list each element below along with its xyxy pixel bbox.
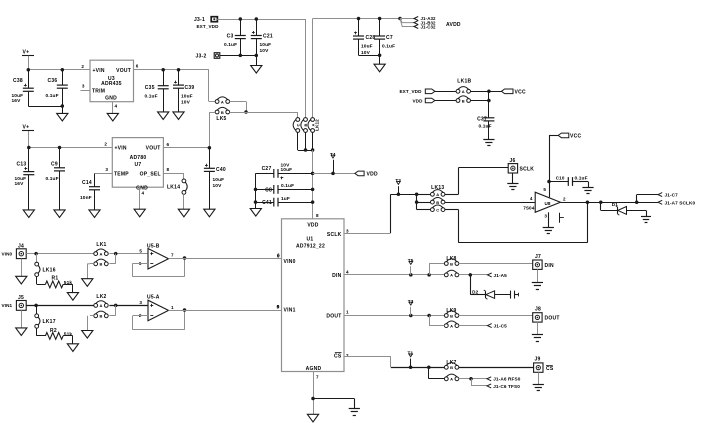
svg-text:C28: C28 [366, 35, 376, 41]
wire VDD row [313, 172, 355, 176]
U7 pin 4 GND wire [140, 187, 145, 209]
capacitor C3 0.1uF [224, 19, 246, 57]
svg-text:A: A [221, 99, 224, 104]
svg-text:0.1uF: 0.1uF [224, 42, 237, 48]
op-amp U3 ADR435 voltage reference body [90, 60, 134, 101]
svg-text:V+: V+ [23, 50, 30, 56]
wire to D1 [601, 202, 618, 210]
net tag VCC [501, 89, 526, 95]
ground below C36 [57, 113, 68, 121]
svg-text:LK5: LK5 [216, 116, 226, 122]
power terminal V+ (U3 supply) [22, 50, 34, 70]
diode D2 [472, 289, 494, 299]
svg-text:T4: T4 [330, 152, 336, 157]
svg-text:LK1B: LK1B [457, 79, 471, 85]
svg-text:VDD: VDD [413, 98, 424, 103]
wire LK5-A out [230, 102, 248, 114]
resistor R1 51k [45, 275, 72, 288]
inverter U8 7S04 [523, 192, 560, 212]
svg-text:VOUT: VOUT [116, 68, 131, 74]
svg-text:7: 7 [171, 253, 174, 258]
svg-text:8: 8 [167, 167, 170, 172]
svg-text:EXT_VDD: EXT_VDD [400, 89, 423, 94]
svg-text:6: 6 [167, 142, 170, 147]
wire LK1 to U5-B +input [109, 248, 148, 263]
wire U1 DIN row [344, 273, 445, 277]
svg-text:0.1uF: 0.1uF [575, 176, 588, 182]
capacitor C7 0.1uF [374, 19, 395, 65]
svg-text:U1: U1 [307, 237, 314, 243]
earth ground below J9 [533, 385, 544, 391]
svg-text:VDD: VDD [307, 222, 318, 228]
svg-text:J1-C5: J1-C5 [494, 324, 508, 329]
wire J4 to LK1-A [26, 252, 94, 256]
svg-text:D1: D1 [612, 202, 618, 207]
svg-text:3: 3 [82, 84, 85, 89]
net tag VDD source [413, 98, 457, 103]
U3 pin 4 GND wire [113, 102, 118, 114]
svg-text:EXT_VDD: EXT_VDD [197, 24, 220, 29]
connector J3-1 [194, 17, 217, 23]
link LK13 [431, 185, 445, 212]
earth ground below D1 [641, 217, 651, 223]
wire LK9-B to J8 [459, 315, 533, 317]
link LK9 [444, 308, 458, 328]
svg-text:TEMP: TEMP [114, 172, 129, 178]
svg-text:DIN: DIN [545, 263, 555, 269]
link LK16 [35, 254, 56, 277]
wire LK7-B to J9 [459, 367, 534, 369]
svg-text:10V: 10V [181, 99, 191, 105]
wire J5 to LK2-A [26, 304, 94, 308]
wire V+ to U3 +VIN, node [27, 64, 90, 72]
svg-text:J1-A7 SCLK0: J1-A7 SCLK0 [665, 200, 696, 205]
wire LK2-B to ground [88, 316, 94, 331]
svg-text:3: 3 [105, 167, 108, 172]
svg-text:VOUT: VOUT [146, 146, 161, 152]
svg-text:C41: C41 [262, 200, 272, 206]
connector J1-C7 [637, 193, 679, 203]
capacitor C36 0.1uF [46, 70, 68, 114]
svg-text:DIN: DIN [332, 273, 342, 279]
capacitor C10 0.1uF [549, 176, 589, 188]
wire U3 VOUT net [134, 64, 209, 72]
svg-text:8: 8 [316, 213, 319, 218]
svg-text:AD7912_22: AD7912_22 [296, 243, 325, 249]
svg-text:5: 5 [139, 248, 142, 253]
capacitor C13 10uF 16V [15, 148, 35, 210]
wire U5-B output to U1 VIN0 [169, 252, 282, 258]
svg-text:VIN0: VIN0 [2, 251, 13, 256]
connector J1-C5 [459, 324, 507, 329]
ground below C39 [173, 112, 184, 120]
wire CS branch to LK7-A [429, 367, 445, 379]
ground below R1 [67, 293, 78, 301]
wire J9 to ground [537, 367, 539, 384]
svg-text:1: 1 [346, 309, 349, 314]
svg-text:U5-A: U5-A [147, 294, 160, 300]
connector J1-A6 RFS0 [459, 377, 521, 382]
svg-text:SCLK: SCLK [327, 232, 342, 238]
svg-text:AGND: AGND [306, 366, 322, 372]
ground below C37 [483, 140, 494, 146]
capacitor C39 10uF 10V [173, 70, 194, 112]
svg-text:LK17: LK17 [43, 319, 56, 325]
svg-text:J8: J8 [535, 307, 541, 313]
connector J1-C32 [400, 19, 436, 30]
resistor R2 51k [45, 328, 72, 340]
power terminal V+ (U7 supply) [22, 125, 34, 148]
svg-text:C36: C36 [48, 78, 58, 84]
ground below J5 [16, 328, 27, 336]
U8 unused pin mark [559, 213, 564, 223]
wire U1 AGND down [311, 372, 315, 415]
connector J8 DOUT [533, 307, 560, 322]
svg-text:LK12: LK12 [315, 119, 320, 131]
wire C38 bottom to C36 bottom [28, 104, 64, 108]
svg-text:6: 6 [277, 252, 280, 257]
wire VCC to U8 pin 5 [543, 135, 550, 197]
op-amp U5-A [139, 294, 174, 320]
svg-text:10uF: 10uF [281, 167, 293, 173]
wire U8 output SCLK0 [560, 196, 658, 204]
link LK17 [35, 305, 56, 328]
svg-text:J6: J6 [510, 158, 516, 164]
capacitor C21 10uF 10V [251, 19, 273, 66]
capacitor C41 1uF [256, 196, 313, 207]
link LK1B-A [456, 87, 470, 94]
wire U7 VOUT up to LK5-B [209, 112, 215, 148]
capacitor C28 10uF 10V [353, 19, 375, 57]
capacitor C27 10uF 10V [256, 163, 313, 180]
svg-text:VIN0: VIN0 [284, 259, 296, 265]
svg-text:16V: 16V [12, 98, 22, 104]
svg-text:GND: GND [105, 95, 117, 101]
connector J1-C6 TFS0 [471, 379, 520, 389]
svg-text:C14: C14 [82, 180, 92, 186]
svg-text:U8: U8 [544, 201, 550, 206]
wire U7 VOUT net [163, 142, 211, 149]
wire AGND to earth ground [313, 399, 355, 409]
wire U5-A output to U1 VIN1 [169, 304, 282, 310]
svg-text:AVDD: AVDD [446, 22, 461, 28]
svg-text:CS: CS [334, 353, 342, 359]
ground below C7 [374, 64, 385, 72]
connector J7 DIN [533, 254, 554, 269]
op-amp U1 AD7912_22 ADC body [282, 213, 345, 372]
wire VCC node down [488, 91, 490, 118]
svg-text:+VIN: +VIN [93, 68, 105, 74]
svg-text:2: 2 [563, 196, 566, 201]
svg-text:J9: J9 [535, 356, 541, 362]
svg-text:0.1uF: 0.1uF [145, 93, 158, 99]
svg-text:A: A [436, 192, 439, 197]
svg-text:10uF: 10uF [361, 44, 373, 50]
svg-text:51k: 51k [64, 331, 73, 337]
svg-text:0.1uF: 0.1uF [281, 183, 294, 189]
diode D1 [612, 202, 627, 215]
ground below cap bus [250, 209, 261, 217]
wire J8 to ground [537, 322, 539, 334]
svg-text:5: 5 [277, 304, 280, 309]
svg-text:5: 5 [543, 187, 546, 192]
svg-text:A: A [450, 377, 453, 382]
svg-text:A: A [450, 273, 453, 278]
earth ground below J8 [532, 335, 543, 342]
svg-text:3: 3 [139, 300, 142, 305]
ground below C13 [23, 210, 34, 218]
wire U3 VOUT down to LK5-A [209, 70, 216, 102]
svg-text:C10: C10 [556, 176, 565, 181]
wire J3-2 to C21 node [220, 55, 256, 57]
connector J5 VIN1 [2, 295, 27, 310]
connector J1-A7 SCLK0 [658, 200, 696, 205]
svg-text:3: 3 [346, 228, 349, 233]
wire LK14 to ground [183, 194, 185, 209]
svg-text:J1-C6 TFS0: J1-C6 TFS0 [493, 384, 520, 389]
svg-text:C: C [296, 123, 301, 126]
net label EXT_VDD (J3) [197, 24, 220, 29]
svg-text:DOUT: DOUT [326, 313, 341, 319]
capacitor C38 10uF 16V [12, 70, 34, 106]
svg-text:0.1uF: 0.1uF [479, 124, 492, 130]
svg-text:SCLK: SCLK [520, 166, 535, 172]
svg-text:10uF: 10uF [181, 93, 193, 99]
svg-text:CS: CS [546, 366, 554, 372]
net tag EXT_VDD [400, 89, 457, 94]
ground below J4 [16, 276, 27, 284]
U3 pin 3 TRIM stub [81, 84, 91, 91]
svg-text:AD780: AD780 [130, 155, 147, 161]
svg-text:J1-C32: J1-C32 [421, 24, 437, 29]
wire DOUT branch to LK9-A [429, 316, 445, 326]
svg-text:C35: C35 [145, 85, 155, 91]
svg-text:10uF: 10uF [260, 42, 272, 48]
wire LK1-B to ground [87, 264, 94, 279]
svg-text:T5: T5 [408, 258, 414, 263]
U1 pin numbers [277, 228, 349, 379]
svg-text:10V: 10V [213, 183, 223, 189]
link LK12 [293, 118, 319, 133]
wire EXT_VDD rail [217, 17, 305, 21]
connector J3-2 [196, 53, 220, 60]
wire LK13-A to J6 [445, 168, 508, 195]
wire LK2 to U5-A +input [109, 300, 148, 316]
wire LK17 to R2 [37, 328, 46, 336]
svg-text:A: A [462, 89, 465, 94]
link LK2 [94, 294, 108, 319]
wire LK16 to R1 [37, 277, 46, 285]
link LK5 [215, 97, 229, 122]
svg-text:B: B [436, 200, 439, 205]
svg-text:B: B [99, 314, 102, 319]
U7 pin 3 TEMP stub [95, 167, 113, 174]
test point T5 [408, 258, 414, 275]
svg-text:OP_SEL: OP_SEL [140, 172, 161, 178]
wire to D2 [470, 275, 485, 295]
svg-text:16V: 16V [15, 181, 25, 187]
wire DIN branch to LK8-B [429, 264, 445, 275]
svg-text:A: A [99, 251, 102, 256]
earth ground below U8 [543, 228, 554, 234]
svg-text:C40: C40 [216, 167, 226, 173]
svg-text:J1-A6 RFS0: J1-A6 RFS0 [493, 377, 521, 382]
capacitor after D2 [495, 291, 519, 299]
op-amp U7 AD780 voltage reference body [112, 138, 163, 192]
svg-text:0.1uF: 0.1uF [382, 44, 395, 50]
svg-text:C38: C38 [13, 78, 23, 84]
svg-text:0.1uF: 0.1uF [46, 176, 59, 182]
svg-text:C3: C3 [227, 34, 234, 40]
wire EXT_VDD down to LK12-B [305, 19, 307, 118]
svg-text:C21: C21 [263, 34, 273, 40]
op-amp U5-B [139, 244, 174, 269]
ground below U7 [134, 209, 145, 217]
svg-text:VIN1: VIN1 [2, 303, 13, 308]
svg-text:10V: 10V [260, 48, 270, 54]
ground below C35 [158, 112, 169, 120]
capacitor C14 10nF [80, 174, 100, 210]
svg-text:2: 2 [81, 64, 84, 69]
svg-text:10uF: 10uF [213, 177, 225, 183]
wire U1 CS row [344, 357, 445, 370]
link LK7 [444, 360, 458, 382]
svg-text:DOUT: DOUT [545, 316, 560, 322]
svg-text:D2: D2 [472, 289, 478, 294]
link LK1B label [457, 79, 471, 85]
connector J1-A5 [459, 273, 507, 278]
connector J1-A32 [400, 16, 436, 21]
wire V+ to U7 +VIN [27, 141, 112, 149]
svg-text:10nF: 10nF [80, 195, 92, 201]
svg-text:7: 7 [316, 375, 319, 380]
earth ground right of AGND [349, 409, 360, 416]
svg-text:C13: C13 [17, 161, 27, 167]
earth ground below J6 [507, 184, 518, 190]
ground below LK1-B [82, 279, 93, 287]
capacitor C9 0.1uF [46, 148, 66, 210]
svg-text:LK16: LK16 [43, 268, 56, 274]
link LK1B-B [456, 96, 470, 103]
ground below U3 [107, 113, 118, 121]
link LK14 [167, 179, 187, 194]
svg-text:C7: C7 [386, 35, 393, 41]
wire cap ground bus [254, 173, 258, 208]
svg-text:V+: V+ [23, 125, 30, 131]
svg-text:VCC: VCC [515, 89, 526, 95]
svg-text:B: B [462, 98, 465, 103]
ground below C40 [204, 209, 215, 217]
wire D1 to ground [627, 210, 647, 216]
capacitor C40 10uF 10V [204, 148, 226, 210]
wire R2 to ground [63, 336, 73, 344]
wire LK1B-B out [471, 99, 491, 103]
svg-text:J1-A5: J1-A5 [494, 273, 508, 278]
svg-text:LK14: LK14 [167, 185, 180, 191]
svg-text:1uF: 1uF [281, 196, 290, 202]
svg-text:1: 1 [171, 305, 174, 310]
svg-text:C27: C27 [262, 166, 272, 172]
capacitor C37 0.1uF [477, 117, 494, 140]
svg-text:B: B [450, 261, 453, 266]
wire U1 DOUT row [344, 314, 445, 318]
earth ground below J7 [532, 283, 543, 290]
svg-text:A: A [450, 323, 453, 328]
wire LK13-B to U8 input [445, 196, 535, 203]
svg-text:C: C [436, 207, 439, 212]
svg-text:J3-1: J3-1 [194, 17, 205, 23]
svg-text:A: A [99, 303, 102, 308]
svg-text:TRIM: TRIM [92, 88, 105, 94]
net label AVDD [446, 22, 461, 28]
svg-text:VDD: VDD [367, 172, 378, 178]
svg-text:C8: C8 [265, 187, 272, 193]
svg-text:VCC: VCC [570, 134, 581, 140]
wire LK8-B to J7 [459, 263, 533, 265]
wire U5-A feedback [133, 308, 187, 330]
svg-text:3: 3 [544, 214, 547, 219]
net tag VCC (U8) [549, 133, 581, 139]
connector J1-B32 [400, 19, 436, 26]
wire U7 OP_SEL to LK14 [163, 167, 184, 179]
wire C28 to C7 bottom [359, 53, 382, 57]
svg-text:J1-C7: J1-C7 [665, 193, 679, 198]
wire J5 to ground [21, 310, 23, 328]
ground below C9 [54, 210, 65, 218]
ground below C21 [251, 66, 262, 74]
svg-text:4: 4 [530, 196, 533, 201]
svg-text:6: 6 [136, 64, 139, 69]
test point T4 [330, 152, 336, 174]
wire R1 to ground [63, 284, 73, 292]
wire J7 to ground [537, 269, 539, 282]
wire J4 to ground [21, 259, 23, 277]
test point T3 (SCLK) [395, 178, 401, 194]
wire LK5 output to LK12-C [230, 112, 298, 118]
svg-text:2: 2 [104, 141, 107, 146]
svg-text:0.1uF: 0.1uF [46, 93, 59, 99]
svg-text:T3: T3 [408, 299, 414, 304]
wire U5-B feedback [133, 256, 187, 276]
svg-text:2: 2 [346, 353, 349, 358]
ground below LK14 [178, 209, 189, 217]
ground below R2 [67, 344, 78, 352]
svg-text:J7: J7 [535, 254, 541, 260]
link LK1 [94, 242, 108, 266]
wire U1 SCLK to LK13 [344, 193, 418, 234]
svg-text:4: 4 [346, 269, 349, 274]
wire LK12 output bus [298, 133, 315, 152]
test point T1 [408, 351, 414, 368]
wire LK1B-A to VCC [471, 90, 502, 94]
svg-text:C39: C39 [185, 85, 195, 91]
svg-text:ADR435: ADR435 [101, 81, 122, 87]
wire feedback loop to LK13-C [445, 202, 588, 242]
svg-text:C9: C9 [51, 161, 58, 167]
svg-text:7S04: 7S04 [523, 206, 535, 211]
svg-text:B: B [450, 365, 453, 370]
wire VDD node vertical [311, 150, 315, 219]
svg-text:T3: T3 [395, 178, 401, 183]
ground below LK2-B [82, 331, 93, 339]
svg-text:U7: U7 [135, 162, 142, 168]
svg-text:VIN1: VIN1 [284, 308, 296, 314]
svg-text:B: B [99, 262, 102, 267]
capacitor C8 0.1uF [256, 183, 313, 194]
capacitor C35 0.1uF [145, 70, 169, 112]
earth ground below C10 [582, 188, 593, 194]
svg-text:B: B [221, 110, 224, 115]
